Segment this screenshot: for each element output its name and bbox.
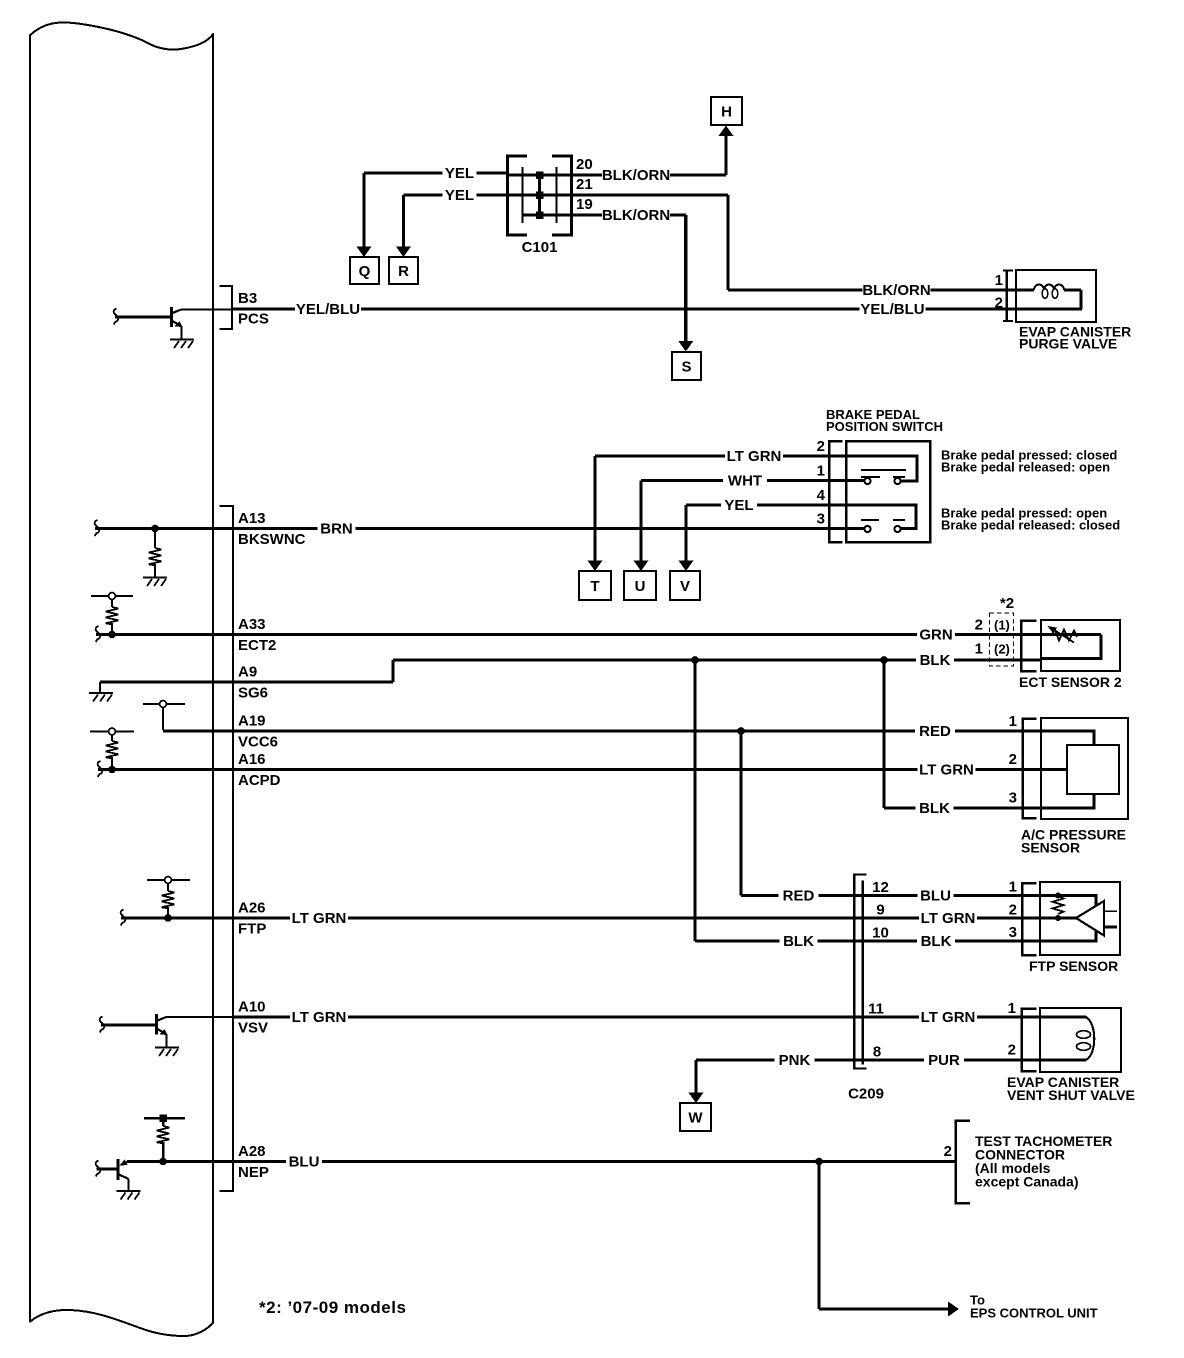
note: upper brake switch contact states: [941, 448, 1117, 475]
connector bracket at test tachometer connector: [944, 1121, 970, 1204]
footnote box *2 at ECT sensor connector: [975, 595, 1014, 666]
svg-text:BLK: BLK: [921, 933, 952, 950]
svg-text:Q: Q: [359, 263, 371, 280]
connector bracket A (pins A13-A28): [220, 506, 234, 1191]
svg-text:PCS: PCS: [238, 311, 269, 328]
svg-text:3: 3: [1009, 790, 1017, 807]
wire BLK/ORN (C101 pin 20) to connector H: [572, 126, 734, 185]
internal reference node at A19: [143, 701, 185, 730]
wire BLK/ORN (C101 pin 19) to connector S: [572, 207, 694, 352]
junction BLK to A/C pressure sensor branch: [880, 656, 888, 664]
svg-text:*2: ’07-09 models: *2: ’07-09 models: [259, 1298, 406, 1317]
svg-text:YEL: YEL: [445, 165, 474, 182]
wire-break squiggle at A33 wire end: [96, 626, 101, 642]
svg-text:VENT SHUT VALVE: VENT SHUT VALVE: [1007, 1087, 1135, 1103]
svg-text:RED: RED: [919, 723, 951, 740]
svg-text:A16: A16: [238, 751, 266, 768]
svg-text:LT GRN: LT GRN: [292, 1009, 347, 1026]
label pin A16 / ACPD: [238, 751, 281, 789]
note: lower brake switch contact states: [941, 506, 1120, 533]
svg-text:R: R: [398, 263, 409, 280]
connector bracket at ECT sensor 2: [1021, 621, 1036, 671]
svg-text:11: 11: [868, 1001, 884, 1018]
brake pedal position switch: [826, 407, 943, 542]
svg-text:A13: A13: [238, 510, 266, 527]
svg-text:1: 1: [1009, 713, 1017, 730]
wire-break squiggle at A13 wire end: [95, 520, 100, 536]
svg-text:20: 20: [576, 156, 593, 173]
svg-text:S: S: [681, 358, 691, 375]
svg-text:BRN: BRN: [320, 521, 353, 538]
svg-text:A19: A19: [238, 713, 266, 730]
wire LT GRN (brake switch pin 2) to connector T: [588, 448, 847, 572]
svg-text:FTP SENSOR: FTP SENSOR: [1029, 958, 1118, 974]
svg-text:1: 1: [995, 272, 1003, 289]
svg-text:BLK/ORN: BLK/ORN: [862, 282, 930, 299]
svg-text:BLU: BLU: [920, 888, 951, 905]
connector box T: [579, 571, 611, 600]
svg-text:2: 2: [1009, 902, 1017, 919]
connector box H: [711, 97, 742, 125]
resistor at NEP: [157, 1118, 170, 1162]
svg-text:BLK: BLK: [920, 652, 951, 669]
wire PCS YEL/BLU to EVAP canister purge valve pin 2: [232, 301, 1016, 319]
internal node at NEP pull-up: [144, 1115, 185, 1123]
label pin A19 / VCC6: [238, 713, 278, 751]
svg-text:10: 10: [872, 925, 889, 942]
svg-text:2: 2: [817, 438, 825, 455]
junction RED to C209 branch: [737, 727, 745, 735]
wire NEP BLU (A28) to test tachometer connector pin 2: [127, 1153, 955, 1171]
ground at A9 (sensor ground SG6): [89, 682, 113, 702]
svg-text:VCC6: VCC6: [238, 734, 278, 751]
svg-text:H: H: [721, 103, 732, 120]
svg-text:A9: A9: [238, 664, 257, 681]
svg-text:LT GRN: LT GRN: [727, 448, 782, 465]
svg-text:YEL: YEL: [445, 187, 474, 204]
label pin A26 / FTP: [238, 900, 266, 938]
label pin A33 / ECT2: [238, 616, 276, 654]
svg-text:8: 8: [873, 1044, 881, 1061]
label pin A28 / NEP: [238, 1143, 269, 1181]
test tachometer connector label: [975, 1133, 1112, 1190]
svg-text:BLK/ORN: BLK/ORN: [602, 167, 670, 184]
connector box W: [680, 1103, 711, 1131]
junction on NEP wire at EPS branch: [815, 1158, 823, 1166]
svg-text:PUR: PUR: [928, 1052, 960, 1069]
junction on A33 wire: [108, 631, 116, 639]
svg-text:POSITION SWITCH: POSITION SWITCH: [826, 419, 943, 434]
svg-text:C101: C101: [522, 239, 558, 256]
label pin B3 / PCS: [238, 290, 269, 328]
ground at Q1 emitter: [170, 340, 194, 349]
ECT sensor 2 (thermistor): [1019, 620, 1122, 690]
svg-text:Brake pedal released: open: Brake pedal released: open: [941, 460, 1110, 475]
svg-text:VSV: VSV: [238, 1020, 268, 1037]
svg-text:ECT2: ECT2: [238, 637, 276, 654]
label pin A10 / VSV: [238, 999, 268, 1037]
svg-text:LT GRN: LT GRN: [921, 1009, 976, 1026]
svg-text:BKSWNC: BKSWNC: [238, 531, 306, 548]
svg-text:C209: C209: [848, 1086, 884, 1103]
svg-text:A28: A28: [238, 1143, 266, 1160]
connector bracket at EVAP canister vent shut valve: [1008, 1000, 1037, 1071]
wire-break squiggle at Q1 base: [114, 309, 119, 325]
svg-text:2: 2: [995, 295, 1003, 312]
wire-break squiggle at A26 wire end: [121, 910, 126, 926]
svg-text:YEL: YEL: [724, 497, 753, 514]
svg-text:RED: RED: [783, 888, 815, 905]
wire BLK/ORN (C101 pin 21) to EVAP canister purge valve pin 1: [572, 195, 1017, 299]
svg-text:V: V: [680, 578, 690, 595]
connector box S: [672, 352, 701, 380]
svg-text:T: T: [590, 578, 599, 595]
svg-text:2: 2: [1009, 751, 1017, 768]
svg-text:NEP: NEP: [238, 1164, 269, 1181]
wire-break squiggle at A16 wire end: [98, 761, 103, 777]
svg-text:2: 2: [975, 617, 983, 634]
connector box Q: [350, 257, 379, 284]
wire YEL (C101 row 21) to connector R: [396, 187, 508, 258]
connector box V: [670, 571, 700, 600]
resistor at A13 (pull-up): [149, 529, 162, 578]
svg-text:YEL/BLU: YEL/BLU: [296, 301, 360, 318]
connector bracket at brake pedal position switch: [817, 438, 843, 542]
svg-text:PURGE VALVE: PURGE VALVE: [1019, 336, 1117, 352]
transistor Q2 (VSV output driver): [101, 1014, 168, 1048]
svg-text:PNK: PNK: [779, 1052, 811, 1069]
svg-text:(2): (2): [994, 642, 1010, 657]
svg-text:A26: A26: [238, 900, 266, 917]
svg-text:W: W: [688, 1109, 703, 1126]
connector bracket at FTP sensor: [1009, 879, 1037, 956]
svg-text:1: 1: [975, 641, 983, 658]
connector bracket at EVAP canister purge valve: [995, 270, 1013, 322]
connector bracket B3 (pin B3): [220, 286, 233, 329]
svg-text:*2: *2: [1000, 595, 1014, 612]
junction on A26 wire: [164, 914, 172, 922]
wire BLK branch to A/C pressure sensor pin 3: [884, 660, 1041, 817]
svg-text:BLU: BLU: [289, 1154, 320, 1171]
connector box U: [624, 571, 656, 600]
svg-text:1: 1: [1009, 879, 1017, 896]
wire ECT2 GRN (A33) to ECT sensor 2 pin 2: [96, 626, 1041, 644]
wire VSV collector stub: [166, 1016, 232, 1018]
svg-text:1: 1: [1008, 1000, 1016, 1017]
svg-text:except Canada): except Canada): [975, 1174, 1078, 1190]
junction on A13 wire: [151, 525, 159, 533]
internal reference node at A26: [147, 877, 190, 884]
EVAP canister purge valve (solenoid coil): [1016, 270, 1131, 352]
transistor Q1 (PCS output driver): [115, 307, 183, 340]
svg-text:2: 2: [944, 1143, 952, 1160]
wire WHT (brake switch pin 1) to connector U: [634, 472, 847, 571]
svg-text:LT GRN: LT GRN: [919, 762, 974, 779]
wire-break squiggle at Q2 base: [100, 1017, 105, 1033]
svg-text:(1): (1): [994, 618, 1010, 633]
in-line connector C209: [848, 875, 889, 1103]
svg-text:SENSOR: SENSOR: [1021, 840, 1080, 856]
transistor Q3 (NEP input): [97, 1159, 129, 1191]
resistor at A26: [162, 883, 175, 918]
svg-text:3: 3: [817, 511, 825, 528]
svg-text:3: 3: [1009, 924, 1017, 941]
junction BLK to C209 branch: [691, 656, 699, 664]
svg-text:BLK: BLK: [783, 933, 814, 950]
svg-text:FTP: FTP: [238, 921, 266, 938]
wire SG6 BLK (A9) to ECT sensor 2 pin 1: [100, 652, 1041, 683]
svg-text:9: 9: [876, 902, 884, 919]
wire-break squiggle at Q3 base: [96, 1161, 101, 1177]
wire VCC6 RED (A19) to A/C pressure sensor pin 1: [163, 723, 1041, 741]
wire YEL (C101 row 20) to connector Q: [357, 165, 508, 258]
internal reference node at A33: [91, 593, 133, 600]
svg-text:WHT: WHT: [728, 473, 762, 490]
wire VSV LT GRN (A10) to C209 pin 11 / EVAP canister vent shut valve pin 1: [232, 1009, 1040, 1027]
svg-text:LT GRN: LT GRN: [292, 910, 347, 927]
wire PNK to C209 pin 8 / PUR to vent shut valve pin 2, drops to connector W: [689, 1052, 1041, 1104]
svg-text:2: 2: [1008, 1042, 1016, 1059]
resistor at A16: [106, 735, 119, 770]
ground at Q3 emitter: [117, 1191, 141, 1200]
svg-text:ACPD: ACPD: [238, 772, 281, 789]
wire YEL (brake switch pin 4) to connector V: [679, 497, 847, 572]
label pin A13 / BKSWNC: [238, 510, 306, 548]
connector bracket at A/C pressure sensor: [1009, 713, 1037, 818]
wire BKSWNC BRN (A13) to brake switch pin 3: [95, 520, 846, 538]
svg-text:ECT SENSOR 2: ECT SENSOR 2: [1019, 674, 1122, 690]
label pin A9 / SG6: [238, 664, 268, 702]
resistor at A33: [106, 599, 119, 634]
svg-text:A10: A10: [238, 999, 266, 1016]
junction on NEP wire at resistor: [159, 1158, 167, 1166]
svg-text:21: 21: [576, 176, 593, 193]
wire ACPD LT GRN (A16) to A/C pressure sensor pin 2: [98, 761, 1041, 779]
ground at Q2 emitter: [155, 1048, 179, 1057]
svg-text:GRN: GRN: [919, 627, 952, 644]
wire BLK branch to C209 pin 10: [695, 660, 1040, 950]
internal reference node at A16: [90, 728, 134, 735]
svg-text:A33: A33: [238, 616, 266, 633]
wire PCS collector stub: [181, 309, 232, 311]
svg-text:BLK: BLK: [919, 800, 950, 817]
svg-text:BLK/ORN: BLK/ORN: [602, 207, 670, 224]
FTP sensor (fuel tank pressure sensor): [1029, 882, 1120, 974]
svg-text:Brake pedal released: closed: Brake pedal released: closed: [941, 518, 1120, 533]
junction connector C101: [508, 156, 593, 256]
svg-text:EPS CONTROL UNIT: EPS CONTROL UNIT: [970, 1306, 1098, 1321]
svg-text:B3: B3: [238, 290, 257, 307]
ECM/PCM module band (torn-edge outline): [30, 22, 213, 1336]
EVAP canister vent shut valve (solenoid coil): [1007, 1008, 1135, 1103]
svg-text:19: 19: [576, 196, 593, 213]
svg-text:12: 12: [872, 879, 889, 896]
svg-text:1: 1: [817, 463, 825, 480]
ground below A13 resistor: [143, 578, 167, 587]
wire NEP branch to EPS control unit: [819, 1162, 1098, 1321]
svg-text:4: 4: [817, 487, 826, 504]
svg-text:YEL/BLU: YEL/BLU: [860, 301, 924, 318]
connector box R: [389, 257, 418, 284]
junction on A16 wire: [108, 766, 116, 774]
wire RED branch to C209 pin 12 / BLU to FTP sensor pin 1: [741, 731, 1040, 905]
svg-text:LT GRN: LT GRN: [921, 910, 976, 927]
svg-text:SG6: SG6: [238, 685, 268, 702]
A/C pressure sensor: [1021, 718, 1128, 856]
wire FTP LT GRN (A26) to C209 pin 9 / FTP sensor pin 2: [121, 910, 1040, 928]
svg-text:U: U: [635, 578, 646, 595]
